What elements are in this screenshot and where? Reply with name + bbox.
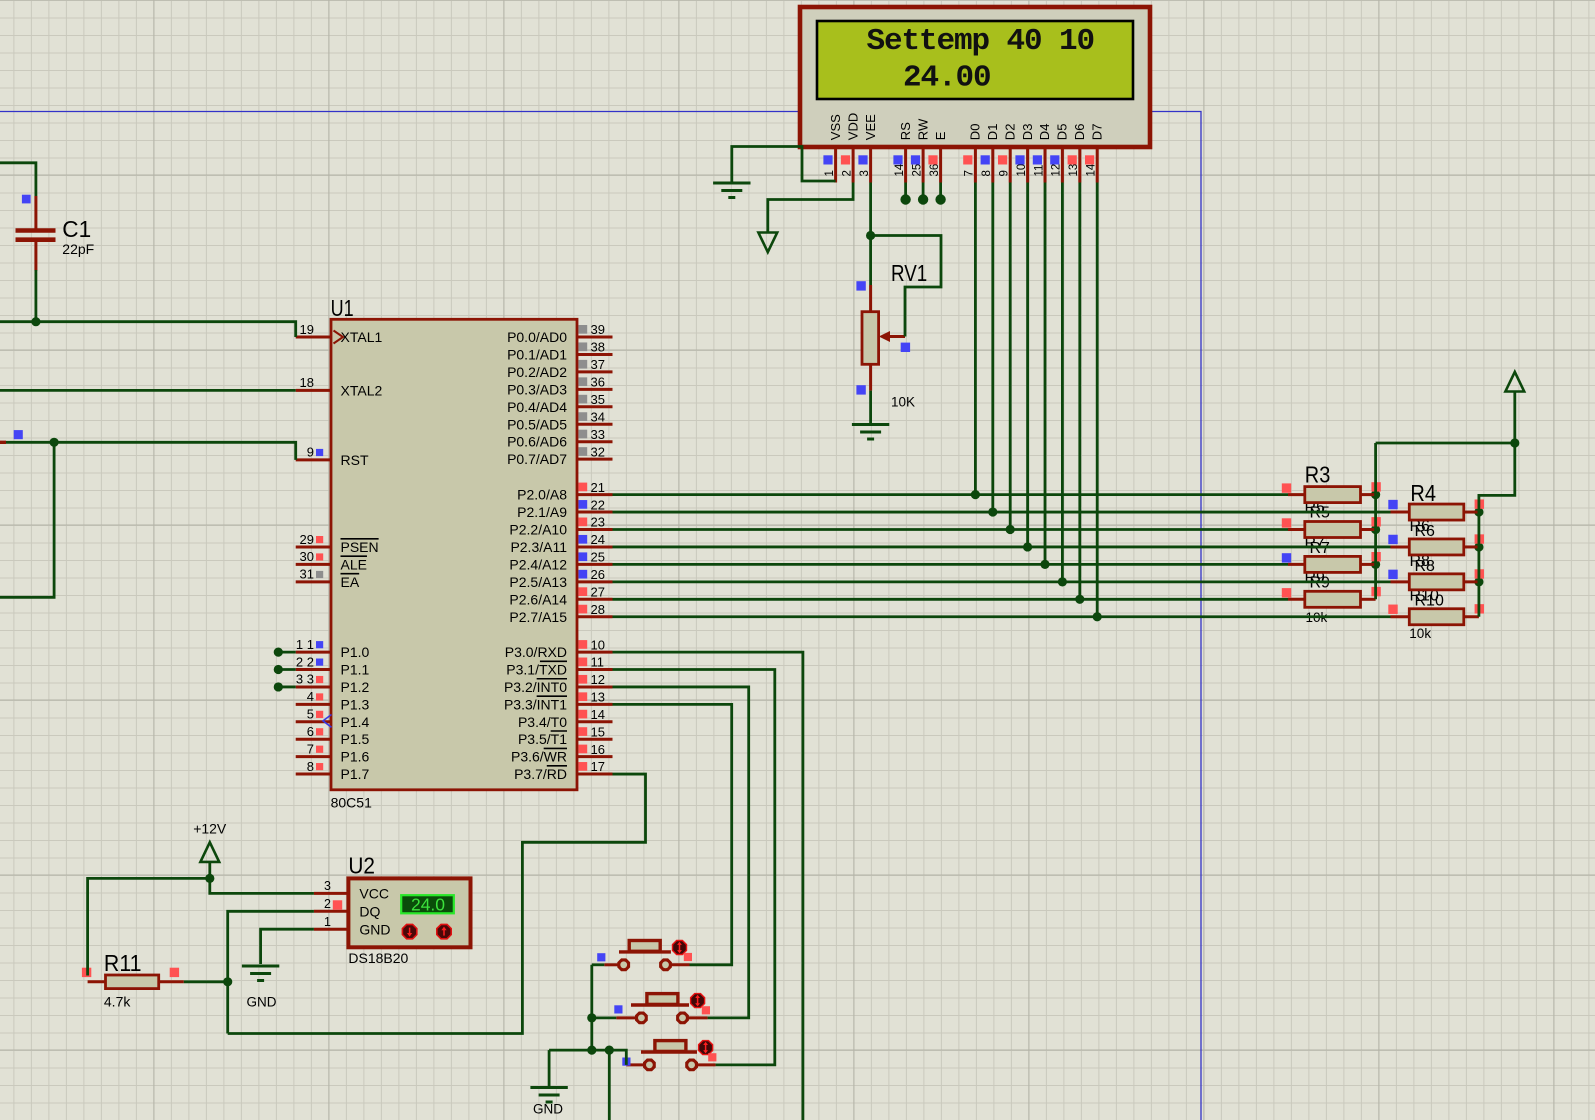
svg-text:VCC: VCC: [359, 886, 389, 902]
svg-text:E: E: [933, 131, 948, 140]
svg-text:34: 34: [591, 409, 605, 424]
svg-text:D3: D3: [1020, 124, 1035, 141]
svg-text:37: 37: [591, 357, 605, 372]
svg-text:13: 13: [1068, 164, 1080, 177]
svg-text:ALE: ALE: [341, 556, 367, 572]
svg-text:31: 31: [300, 567, 314, 582]
svg-text:6: 6: [307, 724, 314, 739]
svg-text:10: 10: [1016, 164, 1028, 177]
svg-text:27: 27: [591, 585, 605, 600]
svg-text:5: 5: [307, 707, 314, 722]
svg-text:C1: C1: [62, 216, 91, 242]
svg-text:R4: R4: [1410, 480, 1436, 506]
svg-text:EA: EA: [341, 574, 360, 590]
svg-text:DQ: DQ: [359, 904, 380, 920]
svg-text:10: 10: [591, 637, 605, 652]
svg-text:23: 23: [591, 515, 605, 530]
svg-text:RST: RST: [341, 452, 369, 468]
svg-text:RV1: RV1: [891, 260, 927, 286]
svg-text:18: 18: [300, 375, 314, 390]
svg-text:10k: 10k: [1409, 626, 1431, 641]
svg-text:22pF: 22pF: [62, 241, 94, 257]
svg-text:P1.3: P1.3: [341, 696, 370, 712]
svg-text:4.7k: 4.7k: [104, 994, 131, 1010]
svg-text:21: 21: [591, 480, 605, 495]
svg-text:P1.4: P1.4: [341, 714, 370, 730]
svg-text:33: 33: [591, 427, 605, 442]
svg-text:P3.5/T1: P3.5/T1: [518, 731, 567, 747]
svg-text:11: 11: [591, 655, 605, 670]
svg-text:PSEN: PSEN: [341, 539, 379, 555]
svg-text:P0.5/AD5: P0.5/AD5: [507, 416, 567, 432]
svg-text:7: 7: [307, 741, 314, 756]
svg-text:D1: D1: [985, 124, 1000, 141]
svg-text:P0.7/AD7: P0.7/AD7: [507, 451, 567, 467]
svg-text:39: 39: [591, 322, 605, 337]
svg-text:P2.2/A10: P2.2/A10: [509, 522, 567, 538]
svg-text:15: 15: [591, 724, 605, 739]
svg-text:R3: R3: [1305, 462, 1331, 488]
svg-text:P2.1/A9: P2.1/A9: [517, 504, 567, 520]
svg-text:8: 8: [981, 170, 993, 176]
svg-text:GND: GND: [359, 922, 390, 938]
svg-text:28: 28: [591, 602, 605, 617]
svg-text:P2.4/A12: P2.4/A12: [509, 556, 567, 572]
svg-text:12: 12: [591, 672, 605, 687]
svg-text:P3.4/T0: P3.4/T0: [518, 714, 567, 730]
svg-text:D2: D2: [1002, 124, 1017, 141]
svg-text:22: 22: [591, 497, 605, 512]
svg-text:P3.7/RD: P3.7/RD: [514, 766, 567, 782]
svg-text:3: 3: [324, 879, 331, 893]
svg-text:P0.3/AD3: P0.3/AD3: [507, 381, 567, 397]
svg-text:D5: D5: [1055, 124, 1070, 141]
svg-text:VEE: VEE: [863, 114, 878, 140]
svg-text:25: 25: [591, 550, 605, 565]
svg-text:19: 19: [300, 322, 314, 337]
svg-text:RW: RW: [915, 118, 930, 140]
svg-text:R6: R6: [1415, 523, 1436, 540]
svg-text:2: 2: [324, 897, 331, 911]
svg-text:2 2: 2 2: [296, 654, 314, 669]
svg-text:P0.2/AD2: P0.2/AD2: [507, 364, 567, 380]
svg-text:Settemp 40 10: Settemp 40 10: [867, 24, 1095, 59]
svg-text:14: 14: [894, 163, 906, 176]
svg-text:25: 25: [911, 164, 923, 177]
svg-text:GND: GND: [247, 995, 277, 1010]
svg-text:29: 29: [300, 532, 314, 547]
svg-text:P0.4/AD4: P0.4/AD4: [507, 399, 567, 415]
svg-text:17: 17: [591, 759, 605, 774]
svg-text:P3.3/INT1: P3.3/INT1: [504, 696, 567, 712]
svg-text:12: 12: [1051, 164, 1063, 177]
svg-text:30: 30: [300, 549, 314, 564]
svg-text:38: 38: [591, 340, 605, 355]
svg-text:24: 24: [591, 532, 605, 547]
svg-text:P2.3/A11: P2.3/A11: [510, 539, 567, 555]
svg-text:D0: D0: [968, 124, 983, 141]
svg-text:26: 26: [591, 567, 605, 582]
svg-text:D4: D4: [1037, 124, 1052, 141]
svg-text:XTAL1: XTAL1: [341, 329, 383, 345]
svg-text:35: 35: [591, 392, 605, 407]
svg-text:P1.0: P1.0: [341, 644, 370, 660]
svg-text:VDD: VDD: [845, 113, 860, 140]
svg-text:9: 9: [999, 170, 1011, 176]
svg-text:P1.2: P1.2: [341, 679, 370, 695]
svg-text:R10: R10: [1415, 593, 1444, 610]
svg-text:7: 7: [964, 170, 976, 176]
svg-text:U2: U2: [348, 853, 375, 879]
svg-text:16: 16: [591, 742, 605, 757]
svg-text:36: 36: [929, 164, 941, 177]
svg-text:XTAL2: XTAL2: [341, 382, 383, 398]
svg-text:10K: 10K: [891, 395, 915, 410]
svg-text:R7: R7: [1310, 540, 1331, 557]
svg-text:P3.1/TXD: P3.1/TXD: [506, 662, 567, 678]
svg-text:P1.1: P1.1: [341, 662, 370, 678]
svg-text:1 1: 1 1: [296, 637, 314, 652]
svg-text:24.0: 24.0: [411, 895, 445, 915]
svg-text:4: 4: [307, 689, 314, 704]
svg-text:GND: GND: [533, 1102, 563, 1117]
svg-text:3 3: 3 3: [296, 672, 314, 687]
svg-text:9: 9: [307, 445, 314, 460]
svg-text:DS18B20: DS18B20: [348, 950, 408, 966]
svg-text:P2.6/A14: P2.6/A14: [509, 591, 567, 607]
svg-text:P3.6/WR: P3.6/WR: [511, 749, 567, 765]
svg-text:RS: RS: [898, 122, 913, 140]
svg-text:R11: R11: [104, 950, 142, 976]
svg-text:3: 3: [859, 170, 871, 176]
svg-text:P2.5/A13: P2.5/A13: [509, 574, 567, 590]
svg-text:32: 32: [591, 444, 605, 459]
svg-text:14: 14: [1086, 163, 1098, 176]
svg-text:1: 1: [824, 170, 836, 176]
svg-text:2: 2: [841, 170, 853, 176]
svg-text:13: 13: [591, 690, 605, 705]
svg-text:P0.6/AD6: P0.6/AD6: [507, 434, 567, 450]
svg-text:8: 8: [307, 759, 314, 774]
svg-text:P2.0/A8: P2.0/A8: [517, 487, 567, 503]
svg-text:VSS: VSS: [828, 114, 843, 140]
svg-text:80C51: 80C51: [331, 795, 372, 811]
svg-text:P3.2/INT0: P3.2/INT0: [504, 679, 567, 695]
svg-text:14: 14: [591, 707, 605, 722]
svg-text:36: 36: [591, 375, 605, 390]
svg-text:P1.7: P1.7: [341, 766, 370, 782]
svg-text:+12V: +12V: [193, 821, 227, 837]
svg-text:P3.0/RXD: P3.0/RXD: [505, 644, 567, 660]
svg-text:1: 1: [324, 915, 331, 929]
svg-text:P1.6: P1.6: [341, 749, 370, 765]
svg-text:P0.1/AD1: P0.1/AD1: [507, 346, 567, 362]
svg-text:D7: D7: [1089, 124, 1104, 141]
svg-text:11: 11: [1033, 165, 1045, 177]
svg-text:24.00: 24.00: [903, 61, 991, 96]
svg-text:P0.0/AD0: P0.0/AD0: [507, 329, 567, 345]
svg-text:P1.5: P1.5: [341, 731, 370, 747]
svg-text:U1: U1: [331, 295, 354, 321]
svg-text:P2.7/A15: P2.7/A15: [509, 609, 567, 625]
svg-text:D6: D6: [1072, 124, 1087, 141]
